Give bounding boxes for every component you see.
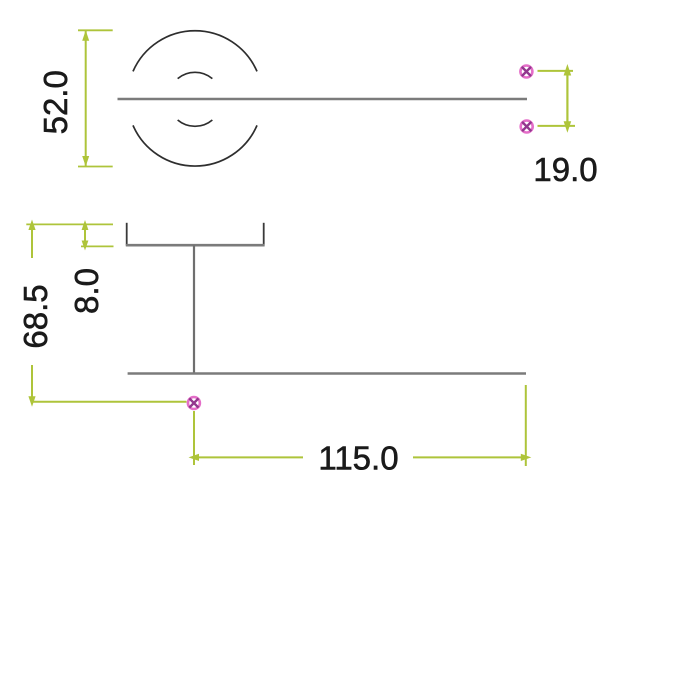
rose side-view right edge <box>263 223 265 246</box>
dimension 8.0 top arrowhead <box>82 220 89 230</box>
dimension 115.0 right extension line <box>525 385 527 466</box>
rose side-view left edge <box>126 223 128 246</box>
svg-text:19.0: 19.0 <box>533 151 597 188</box>
dimension 52.0 bottom arrowhead <box>82 156 89 167</box>
dimension 52.0 top extension tick <box>78 29 113 31</box>
svg-text:68.5: 68.5 <box>17 284 54 348</box>
lever stem (side view) <box>193 245 195 373</box>
fixing point marker P2 (bottom) <box>521 121 533 133</box>
dimension 115.0 left arrowhead <box>189 454 200 461</box>
dimension 68.5 bottom arrowhead <box>28 396 35 407</box>
dimension 115.0 right arrowhead <box>521 454 532 461</box>
dimension 52.0 dimension line <box>85 30 87 166</box>
rose side-view base line <box>126 244 265 247</box>
dimension 68.5/8.0 shared top tick <box>26 223 113 225</box>
dimension 19.0 top arrowhead <box>564 64 572 76</box>
fixing point marker P3 (side view) <box>188 397 200 409</box>
rose inner circle lower arc <box>178 120 213 126</box>
dimension 19.0 dimension line <box>566 71 568 126</box>
dimension 52.0 bottom extension tick <box>78 166 113 168</box>
svg-text:115.0: 115.0 <box>318 440 398 477</box>
rose outer circle lower arc <box>133 125 257 166</box>
fixing point marker P1 (top) <box>520 66 532 78</box>
svg-text:52.0: 52.0 <box>37 70 74 134</box>
dimension 115.0 left extension line <box>193 411 195 465</box>
lever line L1 (plan view) <box>118 98 528 101</box>
dimension 19.0 bottom connector <box>538 125 576 127</box>
dimension 68.5 dimension line lower segment <box>31 365 33 402</box>
dimension 8.0 dimension line <box>84 224 86 246</box>
dimension 19.0 bottom arrowhead <box>564 121 572 133</box>
dimension 68.5 bottom reference line to marker <box>32 401 187 403</box>
dimension 8.0 bottom tick <box>81 245 114 247</box>
svg-text:8.0: 8.0 <box>68 268 105 314</box>
dimension 115.0 dimension line left segment <box>194 456 303 458</box>
dimension 52.0 top arrowhead <box>82 30 89 41</box>
rose inner circle upper arc <box>178 72 213 78</box>
dimension 68.5 top arrowhead <box>28 220 35 231</box>
dimension 68.5 dimension line upper segment <box>31 224 33 258</box>
rose outer circle upper arc <box>133 31 257 72</box>
dimension 8.0 bottom arrowhead <box>82 241 89 251</box>
lever line L2 (side view) <box>128 372 526 375</box>
dimension 19.0 top connector <box>538 70 574 72</box>
dimension 115.0 dimension line right segment <box>413 456 526 458</box>
